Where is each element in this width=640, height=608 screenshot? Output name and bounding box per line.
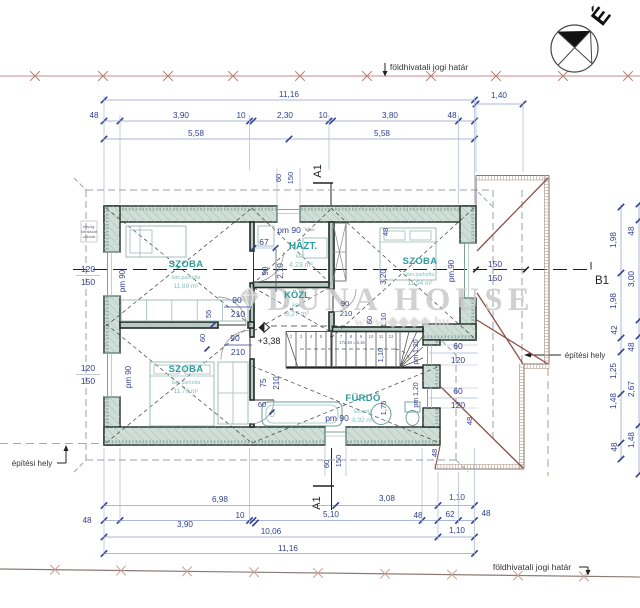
extension lines bottom window bbox=[325, 447, 346, 476]
svg-text:A1: A1 bbox=[311, 496, 323, 509]
axis A1 bottom bbox=[311, 448, 334, 510]
wall interior vertical left segment 2 bbox=[250, 283, 254, 337]
wall interior vertical left segment 4 bbox=[250, 424, 254, 427]
room label furdo bbox=[345, 392, 380, 424]
dim 90 210 door bl lower bbox=[224, 333, 252, 357]
wall outer top left segment bbox=[104, 206, 277, 222]
roof edge strip top bbox=[476, 175, 549, 177]
wall interior vertical HAZT east upper bbox=[329, 222, 334, 289]
toilet furdo bbox=[405, 402, 420, 412]
svg-text:3,20: 3,20 bbox=[379, 269, 388, 285]
svg-text:3,90: 3,90 bbox=[177, 520, 193, 529]
note block top-left bbox=[81, 221, 98, 242]
svg-text:SZOBA: SZOBA bbox=[169, 259, 204, 270]
svg-text:210: 210 bbox=[272, 376, 281, 390]
svg-text:48: 48 bbox=[627, 226, 636, 236]
room label szoba top-left bbox=[169, 259, 204, 290]
svg-text:pm 1,20: pm 1,20 bbox=[413, 339, 420, 364]
dim 90 210 door bl upper bbox=[224, 295, 252, 319]
furniture wardrobe szoba bottom-left bbox=[218, 362, 248, 424]
svg-text:120: 120 bbox=[451, 400, 465, 410]
roof strip left edge bbox=[475, 176, 477, 207]
axis B1 line bbox=[73, 269, 591, 271]
level mark +3,38 bbox=[258, 323, 345, 347]
svg-text:építési hely: építési hely bbox=[12, 459, 52, 468]
svg-text:120: 120 bbox=[81, 363, 95, 373]
svg-text:67: 67 bbox=[259, 237, 269, 247]
svg-text:1,10: 1,10 bbox=[376, 348, 385, 363]
svg-text:építési hely: építési hely bbox=[565, 351, 605, 360]
dim 90 210 door tl bbox=[261, 249, 285, 292]
svg-text:8,27 m²: 8,27 m² bbox=[285, 311, 309, 318]
watermark www address bbox=[354, 315, 449, 330]
svg-text:48: 48 bbox=[465, 417, 474, 425]
label foldhivatali jogi hatar top bbox=[383, 62, 469, 77]
room label szoba right bbox=[403, 256, 438, 287]
svg-text:HÁZT.: HÁZT. bbox=[289, 239, 318, 252]
svg-text:48: 48 bbox=[610, 442, 619, 452]
svg-text:ker.: ker. bbox=[292, 303, 302, 309]
room label szoba bottom-left bbox=[169, 364, 204, 395]
roof edge strip right lower bbox=[523, 364, 525, 469]
svg-text:KÖZL: KÖZL bbox=[284, 290, 310, 301]
svg-text:60: 60 bbox=[365, 316, 374, 324]
wall outer top right segment bbox=[300, 206, 475, 222]
diagonal cross room szoba right bbox=[331, 208, 474, 338]
door kozl to szoba-bl (90/210) bbox=[221, 331, 250, 360]
svg-text:90: 90 bbox=[232, 295, 242, 305]
axis B1 label bbox=[591, 262, 609, 287]
wall above stairs bbox=[333, 327, 424, 332]
svg-text:pm 90: pm 90 bbox=[325, 413, 349, 423]
svg-text:3,80: 3,80 bbox=[382, 111, 398, 120]
svg-text:11,70 m²: 11,70 m² bbox=[174, 388, 199, 395]
svg-text:48: 48 bbox=[481, 509, 491, 518]
door furdo 60 bbox=[250, 400, 274, 424]
svg-text:3,90: 3,90 bbox=[173, 111, 189, 120]
svg-text:60: 60 bbox=[453, 386, 463, 396]
svg-text:földhivatali jogi határ: földhivatali jogi határ bbox=[493, 562, 571, 572]
door kozl to szoba-r (90/210) bbox=[333, 289, 356, 312]
furniture bed szoba top-left bbox=[126, 226, 186, 257]
wall outer right upper segment 2 bbox=[460, 298, 476, 340]
svg-text:48: 48 bbox=[447, 111, 457, 120]
dim 75 210 door furdo bbox=[259, 376, 281, 390]
svg-text:lám.parketta: lám.parketta bbox=[406, 272, 435, 278]
eaves overhang dashed outline bbox=[74, 178, 522, 472]
svg-text:10: 10 bbox=[236, 111, 246, 120]
svg-text:SZOBA: SZOBA bbox=[403, 256, 438, 267]
window left upper (120/150) bbox=[104, 252, 120, 296]
svg-text:1,48: 1,48 bbox=[609, 393, 618, 409]
svg-text:11,16: 11,16 bbox=[278, 544, 298, 553]
epitesi hely dashed line right bbox=[547, 368, 549, 476]
svg-text:75: 75 bbox=[259, 378, 268, 387]
svg-text:6,98: 6,98 bbox=[212, 495, 228, 504]
diagonal cross room kozl bbox=[254, 288, 330, 332]
svg-text:48: 48 bbox=[627, 342, 636, 352]
roof edge step bbox=[524, 363, 549, 365]
svg-text:5,58: 5,58 bbox=[374, 129, 390, 138]
svg-text:2,67: 2,67 bbox=[627, 381, 636, 397]
wall outer left segment 2 bbox=[104, 296, 120, 353]
svg-text:hősz.: hősz. bbox=[305, 227, 316, 232]
svg-text:1,25: 1,25 bbox=[609, 363, 618, 379]
dim 60 150 bottom window bbox=[322, 455, 343, 468]
dimension chain top bbox=[89, 90, 526, 142]
chimney shaft with cross bbox=[333, 223, 346, 281]
svg-text:10,06: 10,06 bbox=[261, 527, 282, 536]
washbasin furdo bbox=[371, 404, 391, 425]
wall interior horizontal left segment bbox=[120, 322, 218, 328]
wall outer right lower segment 1 bbox=[423, 340, 440, 345]
dim 150 150 right window bbox=[473, 259, 529, 283]
svg-text:120: 120 bbox=[81, 264, 95, 274]
dim 60 door furdo bbox=[258, 400, 275, 415]
svg-text:vakolat: vakolat bbox=[83, 234, 97, 239]
svg-text:62: 62 bbox=[445, 510, 455, 519]
dim 55 60 bbox=[198, 310, 216, 352]
svg-text:150: 150 bbox=[488, 259, 502, 269]
svg-text:11,16: 11,16 bbox=[279, 90, 299, 99]
dim 60 150 top window bbox=[274, 172, 295, 185]
wall interior below HAZT bbox=[254, 282, 333, 288]
svg-text:48: 48 bbox=[430, 449, 439, 457]
watermark diamond logo bbox=[240, 287, 259, 310]
wall interior horizontal left stub bbox=[248, 322, 254, 328]
section line A1 through staircase bbox=[331, 332, 333, 368]
fixtures hazt bbox=[258, 226, 327, 258]
epitesi hely label left bbox=[12, 445, 69, 468]
window right (150/150) bbox=[460, 243, 476, 298]
svg-text:ker.: ker. bbox=[296, 254, 306, 260]
dimension chain bottom bbox=[82, 493, 491, 557]
roof hip mid steep bbox=[477, 293, 523, 364]
svg-text:1,98: 1,98 bbox=[609, 232, 618, 248]
svg-text:10: 10 bbox=[369, 334, 374, 339]
extension lines top window bbox=[277, 168, 300, 204]
wall outer bottom left segment bbox=[104, 427, 325, 445]
window left lower (120/150) bbox=[104, 353, 120, 397]
svg-text:4,23 m²: 4,23 m² bbox=[289, 262, 313, 269]
furniture bed szoba right bbox=[380, 228, 436, 280]
svg-text:11: 11 bbox=[379, 334, 384, 339]
svg-text:12: 12 bbox=[389, 334, 394, 339]
dim 67 hazt door bbox=[251, 237, 279, 251]
svg-text:150: 150 bbox=[81, 277, 95, 287]
extension lines top bbox=[104, 96, 523, 204]
window right lower 2 (60/120) bbox=[428, 388, 432, 408]
wall outer right lower segment 3 bbox=[423, 408, 440, 427]
roof hip corner small bbox=[435, 446, 440, 469]
svg-text:90: 90 bbox=[230, 333, 240, 343]
svg-text:pm 90: pm 90 bbox=[447, 259, 456, 282]
svg-text:150: 150 bbox=[334, 455, 343, 468]
svg-text:90: 90 bbox=[341, 299, 349, 308]
window right lower 1 (60/120) bbox=[428, 345, 432, 365]
svg-text:48: 48 bbox=[82, 516, 92, 525]
svg-text:1,10: 1,10 bbox=[449, 526, 465, 535]
furniture wardrobe szoba top-left bbox=[121, 300, 248, 321]
roof hip SE long bbox=[441, 387, 523, 468]
diagonal cross room furdo bbox=[252, 366, 440, 443]
dim 90 210 door szoba-r bbox=[340, 299, 353, 318]
svg-text:150: 150 bbox=[286, 172, 295, 185]
svg-text:kerámia: kerámia bbox=[354, 409, 373, 415]
diagonal cross room szoba bottom-left bbox=[106, 324, 252, 443]
svg-text:120: 120 bbox=[451, 355, 465, 365]
svg-text:150: 150 bbox=[488, 273, 502, 283]
svg-text:210: 210 bbox=[231, 347, 245, 357]
svg-text:60: 60 bbox=[322, 460, 331, 468]
svg-text:48: 48 bbox=[381, 228, 390, 236]
svg-text:10: 10 bbox=[235, 511, 245, 520]
svg-text:5,58: 5,58 bbox=[188, 129, 204, 138]
svg-text:210: 210 bbox=[231, 309, 245, 319]
north compass symbol bbox=[551, 25, 598, 72]
property boundary line top (folhivatali jogi hatar) bbox=[0, 71, 640, 81]
dim 120 150 left upper bbox=[76, 264, 100, 287]
svg-text:1,75: 1,75 bbox=[379, 401, 388, 416]
svg-text:60: 60 bbox=[274, 174, 283, 182]
svg-text:pm 1,20: pm 1,20 bbox=[413, 382, 420, 407]
roof hip NE bbox=[477, 178, 548, 251]
svg-text:SZOBA: SZOBA bbox=[169, 364, 204, 375]
furniture bed szoba bottom-left bbox=[150, 362, 214, 426]
svg-text:55: 55 bbox=[204, 310, 213, 318]
svg-text:48: 48 bbox=[413, 511, 423, 520]
wall outer right upper segment 1 bbox=[460, 206, 476, 243]
svg-text:+3,38: +3,38 bbox=[258, 336, 281, 346]
window top (60/150) bbox=[277, 206, 300, 222]
svg-text:FÜRDŐ: FÜRDŐ bbox=[345, 392, 380, 404]
wall interior vertical left segment 3 bbox=[250, 359, 254, 400]
extension lines right windows bbox=[441, 345, 478, 408]
property boundary line bottom bbox=[0, 565, 640, 581]
dim 60 120 window 1 bbox=[429, 341, 478, 365]
svg-text:pm 90: pm 90 bbox=[118, 269, 127, 292]
svg-text:48: 48 bbox=[89, 111, 99, 120]
stair bottom edge wall line bbox=[286, 366, 423, 368]
svg-text:10: 10 bbox=[318, 111, 328, 120]
label foldhivatali jogi hatar bottom bbox=[493, 562, 591, 576]
svg-text:1,98: 1,98 bbox=[609, 293, 618, 309]
svg-text:210: 210 bbox=[340, 309, 353, 318]
svg-text:3,08: 3,08 bbox=[379, 494, 395, 503]
svg-text:42: 42 bbox=[610, 325, 619, 335]
svg-text:60: 60 bbox=[453, 341, 463, 351]
wall outer right lower segment 2 bbox=[423, 365, 440, 388]
wall outer left segment 3 bbox=[104, 397, 120, 445]
svg-text:1,48: 1,48 bbox=[627, 432, 636, 448]
axis A1 top bbox=[312, 164, 333, 205]
epitesi hely label right bbox=[524, 351, 605, 360]
extension lines bottom bbox=[104, 448, 475, 556]
room label hazt bbox=[289, 239, 318, 269]
dim pm90 top window bbox=[277, 225, 315, 235]
roof hip mid shallow bbox=[477, 320, 548, 364]
svg-text:3,00: 3,00 bbox=[627, 271, 636, 287]
staircase bbox=[286, 332, 423, 368]
stair top edge line bbox=[286, 331, 333, 333]
door szoba-tl inner (55/60) bbox=[218, 297, 246, 325]
dim 120 150 left lower bbox=[76, 363, 100, 386]
door szoba-tl to kozl (90/210) bbox=[254, 252, 284, 282]
diagonal cross room hazt bbox=[252, 208, 332, 285]
svg-text:11,94 m²: 11,94 m² bbox=[408, 280, 433, 287]
svg-text:B1: B1 bbox=[595, 275, 609, 287]
epitesi hely dashed line left bbox=[0, 443, 103, 445]
svg-text:pm 90: pm 90 bbox=[124, 365, 133, 388]
wall step south of right szoba bbox=[423, 324, 476, 340]
wall outer bottom right segment bbox=[346, 427, 440, 445]
svg-text:1,40: 1,40 bbox=[491, 91, 507, 100]
svg-text:60: 60 bbox=[198, 334, 207, 342]
svg-text:11,89 m²: 11,89 m² bbox=[174, 283, 199, 290]
wall interior vertical left segment 1 bbox=[250, 222, 254, 251]
svg-text:2,30: 2,30 bbox=[277, 111, 293, 120]
svg-text:5,10: 5,10 bbox=[323, 510, 339, 519]
room label kozl bbox=[284, 290, 310, 318]
svg-text:8,92 m²: 8,92 m² bbox=[352, 417, 374, 424]
svg-text:150: 150 bbox=[81, 376, 95, 386]
svg-text:2,10: 2,10 bbox=[276, 263, 285, 279]
svg-text:pm 90: pm 90 bbox=[277, 225, 301, 235]
svg-text:1,10: 1,10 bbox=[449, 493, 465, 502]
svg-text:90: 90 bbox=[261, 266, 270, 275]
bathtub furdo bbox=[262, 402, 342, 426]
svg-text:A1: A1 bbox=[312, 164, 324, 177]
wall interior vertical HAZT east lower bbox=[329, 312, 334, 331]
svg-text:lam.parketta: lam.parketta bbox=[172, 380, 201, 386]
roof edge strip bottom bbox=[435, 468, 524, 470]
diagonal cross room szoba top-left bbox=[106, 208, 252, 326]
svg-text:1,10: 1,10 bbox=[379, 313, 388, 328]
dim 60 120 window 2 bbox=[429, 386, 478, 410]
svg-text:60: 60 bbox=[258, 400, 266, 409]
svg-text:lám.parketta: lám.parketta bbox=[172, 275, 201, 281]
watermark DUNA HOUSE bbox=[267, 282, 534, 318]
dimension chain right margin bbox=[609, 201, 640, 477]
window bottom (pm 90) bbox=[325, 427, 346, 445]
wall outer left segment 1 bbox=[104, 206, 120, 252]
svg-text:földhivatali jogi határ: földhivatali jogi határ bbox=[390, 62, 468, 72]
roof edge strip right upper bbox=[548, 176, 550, 365]
svg-text:17x 18 = 3,16: 17x 18 = 3,16 bbox=[339, 340, 365, 345]
